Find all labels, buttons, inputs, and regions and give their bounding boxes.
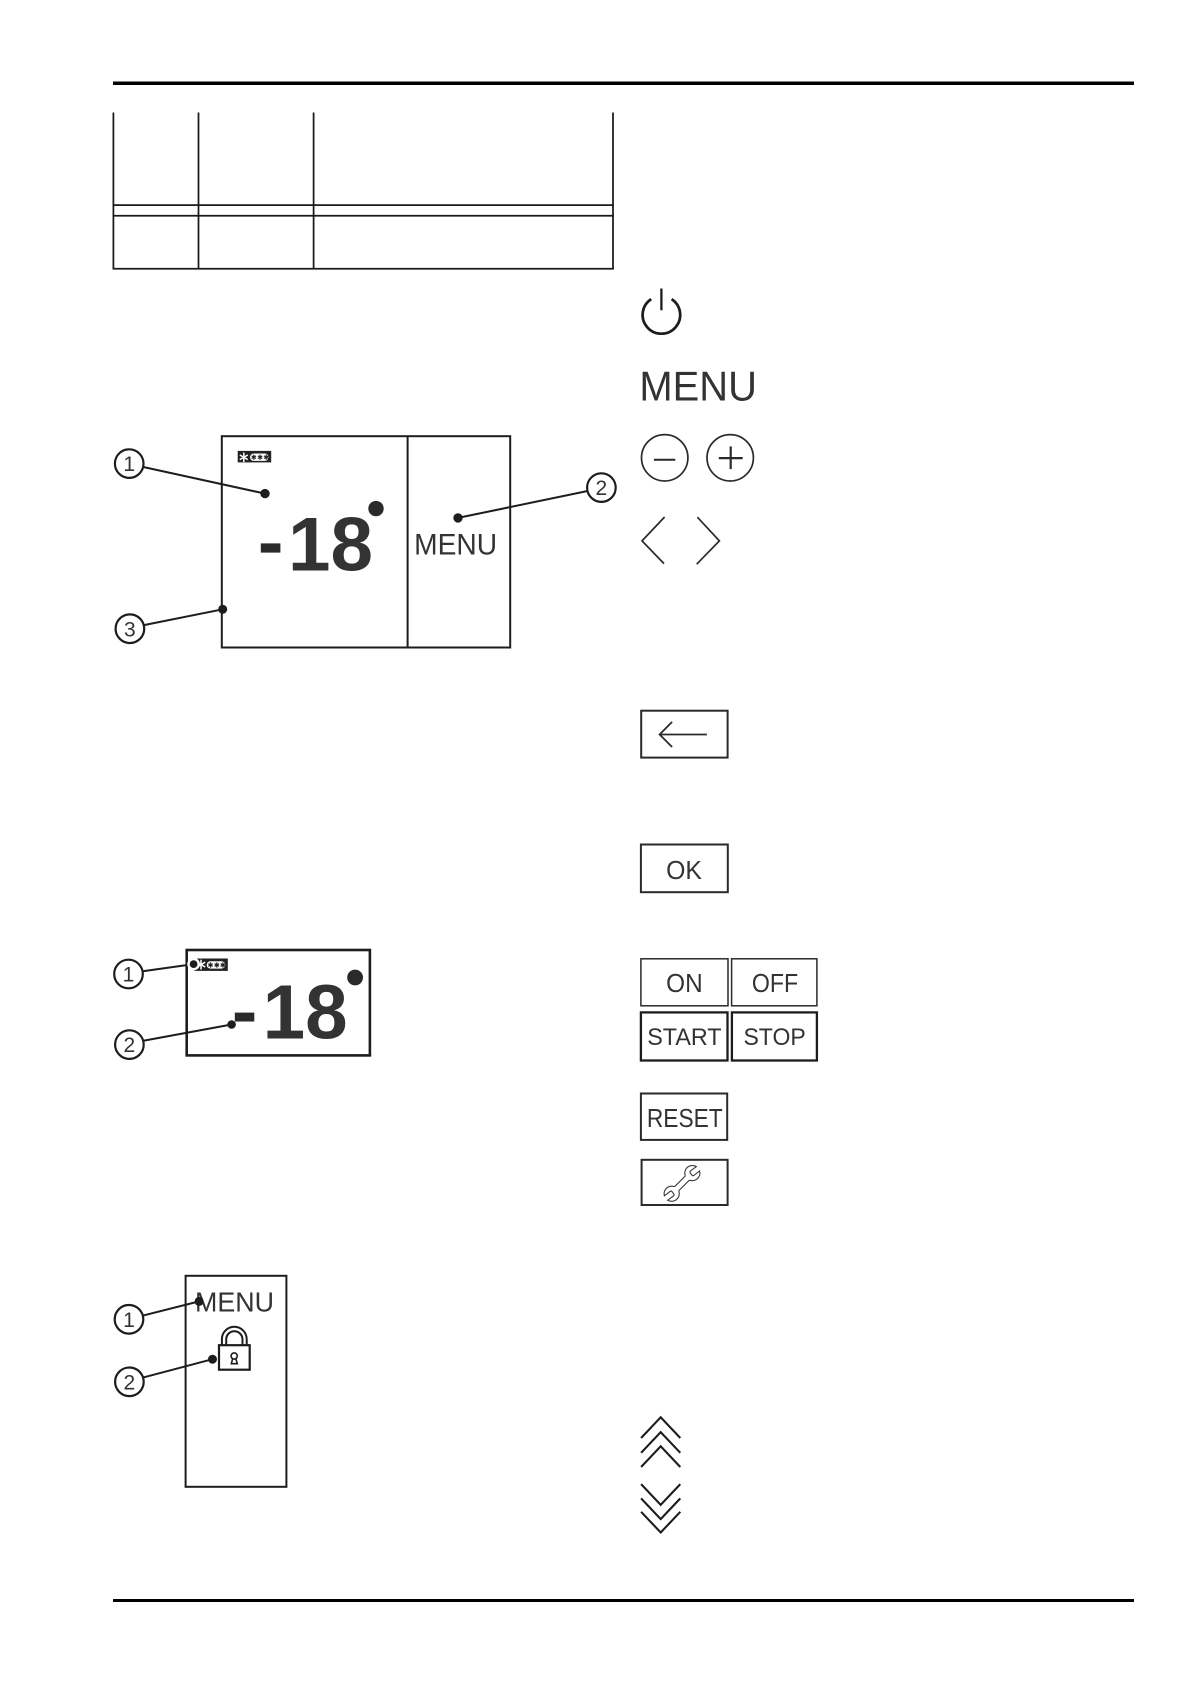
- degree dot B: [347, 970, 363, 986]
- callout 1 (figure A): [115, 449, 270, 498]
- svg-text:2: 2: [124, 1371, 136, 1394]
- svg-text:2: 2: [596, 477, 608, 500]
- lock icon: [219, 1327, 250, 1370]
- power key icon: [643, 289, 681, 334]
- OK key: [641, 845, 728, 893]
- menu panel figure C: [186, 1276, 287, 1487]
- callout 2 (figure C): [115, 1355, 217, 1396]
- callout 2 (figure A): [453, 473, 615, 522]
- svg-text:3: 3: [124, 618, 136, 641]
- svg-text:18: 18: [288, 503, 373, 588]
- scroll down fast key: [641, 1484, 680, 1532]
- display panel figure A: [222, 436, 510, 647]
- ON key: [641, 959, 728, 1006]
- svg-text:START: START: [647, 1024, 721, 1051]
- scroll up fast key: [641, 1417, 680, 1467]
- OFF key: [732, 959, 817, 1006]
- svg-text:STOP: STOP: [743, 1024, 805, 1051]
- degree dot A: [368, 501, 383, 516]
- svg-text:OFF: OFF: [752, 970, 798, 998]
- top rule: [113, 82, 1134, 86]
- svg-text:ON: ON: [666, 970, 703, 998]
- table grid (continuation, no top border): [113, 113, 614, 269]
- back key: [641, 711, 727, 758]
- callout 3 (figure A): [116, 605, 228, 643]
- freezer indicator badge B: [194, 959, 228, 971]
- svg-text:MENU: MENU: [414, 528, 497, 561]
- svg-text:RESET: RESET: [647, 1105, 723, 1133]
- svg-text:2: 2: [124, 1034, 136, 1057]
- plus key: [707, 435, 753, 481]
- freezer indicator badge A: [238, 451, 272, 463]
- STOP key: [732, 1012, 817, 1060]
- minus key: [642, 435, 688, 481]
- svg-text:1: 1: [123, 453, 135, 476]
- display panel figure B: [187, 950, 370, 1055]
- svg-text:18: 18: [263, 970, 348, 1056]
- left arrow key: [642, 517, 665, 564]
- svg-text:1: 1: [123, 1309, 135, 1332]
- temperature reading -18 (figure B): [235, 1013, 255, 1022]
- service key (wrench): [642, 1160, 728, 1205]
- START key: [641, 1012, 728, 1060]
- callout 1 (figure B): [114, 958, 200, 989]
- svg-text:MENU: MENU: [639, 362, 757, 409]
- bottom rule: [113, 1599, 1134, 1602]
- svg-text:OK: OK: [666, 857, 702, 885]
- right arrow key: [697, 517, 720, 564]
- temperature reading -18 (figure A): [261, 543, 281, 552]
- callout 2 (figure B): [115, 1020, 236, 1059]
- RESET key: [641, 1094, 727, 1140]
- svg-text:1: 1: [123, 964, 135, 987]
- svg-text:MENU: MENU: [195, 1286, 274, 1317]
- callout 1 (figure C): [115, 1297, 204, 1334]
